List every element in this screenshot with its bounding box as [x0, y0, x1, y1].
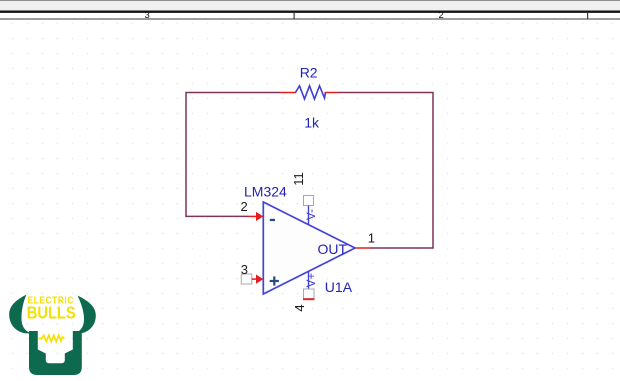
svg-text:OUT: OUT [318, 241, 348, 257]
svg-text:R2: R2 [300, 65, 318, 81]
svg-text:2: 2 [241, 199, 248, 214]
svg-text:2: 2 [439, 10, 444, 21]
svg-text:U1A: U1A [325, 279, 353, 295]
svg-text:BULLS: BULLS [27, 302, 76, 322]
svg-text:3: 3 [241, 262, 248, 277]
svg-text:4: 4 [292, 304, 307, 311]
svg-text:1k: 1k [304, 114, 320, 130]
svg-text:V-: V- [306, 209, 318, 220]
svg-text:V+: V+ [306, 273, 318, 288]
svg-text:1: 1 [368, 230, 375, 245]
svg-text:11: 11 [291, 172, 306, 186]
svg-text:3: 3 [145, 10, 150, 21]
svg-text:LM324: LM324 [244, 184, 287, 200]
